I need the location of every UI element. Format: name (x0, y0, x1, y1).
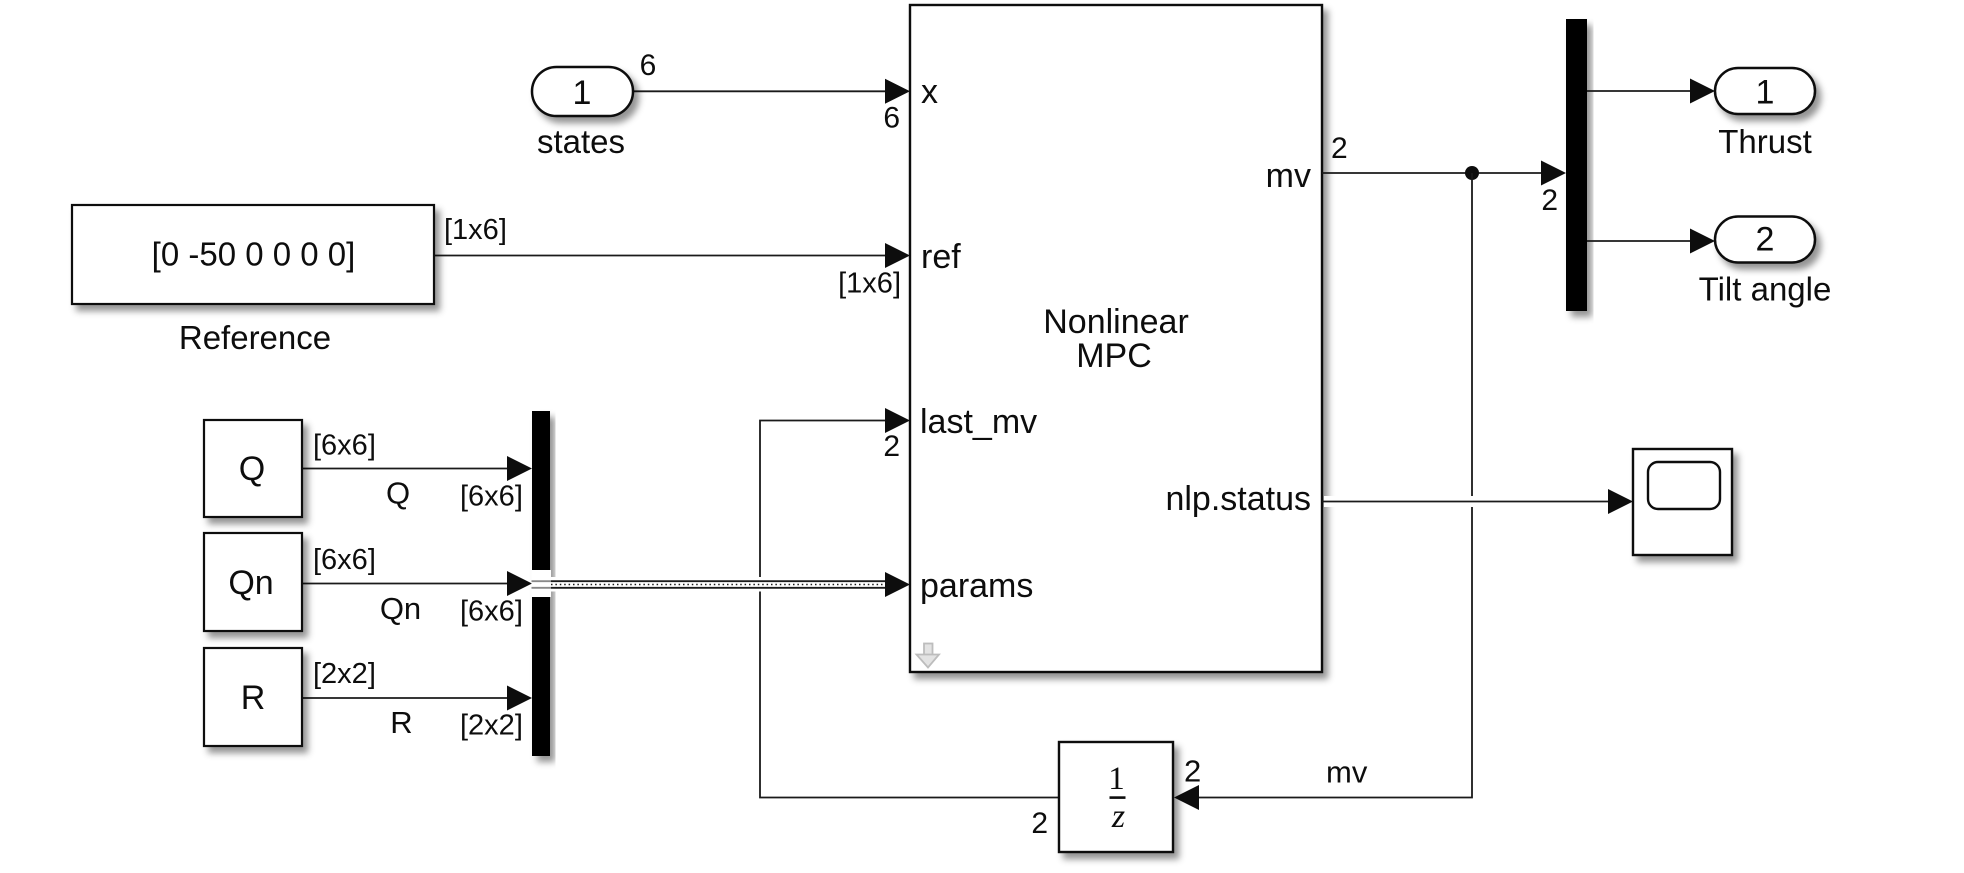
arrowhead into Tilt angle (1690, 229, 1715, 254)
svg-text:2: 2 (1756, 221, 1775, 259)
wire states to x (633, 90, 890, 92)
svg-text:mv: mv (1326, 755, 1368, 790)
svg-text:[6x6]: [6x6] (313, 430, 376, 462)
arrowhead into ref port (885, 243, 910, 268)
svg-text:Reference: Reference (179, 319, 331, 356)
svg-text:[1x6]: [1x6] (838, 268, 901, 300)
arrowhead into params port (885, 572, 910, 597)
svg-text:2: 2 (1541, 184, 1558, 217)
svg-text:6: 6 (640, 49, 657, 82)
arrowhead into Thrust (1690, 79, 1715, 104)
svg-text:[1x6]: [1x6] (444, 214, 507, 246)
wire nlp.status to scope (1324, 496, 1613, 507)
bus segment through notch (532, 581, 552, 588)
outport block Tilt angle (1715, 217, 1815, 263)
svg-text:Q: Q (239, 450, 265, 488)
svg-text:R: R (390, 705, 412, 740)
demux block (1566, 19, 1587, 311)
svg-text:states: states (537, 123, 625, 160)
wire mv to demux (1322, 172, 1546, 174)
svg-text:[6x6]: [6x6] (460, 481, 523, 513)
wire demux to Tilt angle (1587, 240, 1695, 242)
nonlinear mpc block (910, 5, 1322, 672)
scope block (1633, 449, 1732, 555)
arrowhead into x port (885, 79, 910, 104)
arrowhead into unit delay (1174, 785, 1199, 810)
outport block Thrust (1715, 68, 1815, 114)
svg-text:z: z (1111, 798, 1125, 835)
block Q (204, 420, 302, 517)
scope screen (1648, 462, 1720, 509)
constant block Reference (72, 205, 434, 304)
svg-text:MPC: MPC (1076, 337, 1152, 375)
arrowhead Qn into mux (507, 571, 532, 596)
svg-text:[2x2]: [2x2] (313, 658, 376, 690)
arrowhead into last_mv port (885, 408, 910, 433)
svg-text:2: 2 (1184, 754, 1201, 789)
subsystem drill-down arrow icon (917, 644, 940, 668)
svg-text:2: 2 (1331, 132, 1348, 165)
wire Qn to mux (302, 583, 512, 585)
svg-text:Q: Q (386, 476, 410, 511)
unit delay block (1059, 742, 1173, 852)
svg-text:[0 -50 0 0 0 0]: [0 -50 0 0 0 0] (152, 236, 356, 273)
svg-text:x: x (921, 73, 938, 111)
svg-text:1: 1 (573, 74, 592, 112)
arrowhead into scope (1608, 489, 1633, 514)
arrowhead R into mux (507, 686, 532, 711)
wire Reference to ref (434, 255, 890, 257)
inport block states (532, 67, 633, 116)
arrowhead Q into mux (507, 456, 532, 481)
svg-text:Tilt angle: Tilt angle (1699, 271, 1832, 308)
block R (204, 648, 302, 746)
svg-text:2: 2 (883, 430, 900, 463)
junction dot on mv wire (1465, 166, 1479, 180)
svg-text:Qn: Qn (228, 564, 273, 602)
svg-text:Nonlinear: Nonlinear (1043, 303, 1189, 341)
wire demux to Thrust (1587, 90, 1695, 92)
mux bus notch (532, 570, 552, 597)
svg-text:Qn: Qn (380, 591, 421, 626)
wire Q to mux (302, 468, 512, 470)
svg-text:6: 6 (883, 102, 900, 135)
svg-text:ref: ref (921, 238, 961, 276)
svg-text:2: 2 (1031, 807, 1048, 840)
svg-text:1: 1 (1108, 761, 1125, 797)
svg-text:[6x6]: [6x6] (313, 544, 376, 576)
mux block (532, 411, 550, 756)
svg-text:params: params (920, 567, 1033, 605)
svg-text:R: R (241, 679, 266, 717)
arrowhead into demux (1541, 161, 1566, 186)
svg-text:[6x6]: [6x6] (460, 596, 523, 628)
svg-text:mv: mv (1266, 157, 1311, 195)
bus wire mux to params (551, 577, 888, 592)
block Qn (204, 533, 302, 631)
unit delay 1/z fraction (1108, 761, 1125, 835)
svg-text:[2x2]: [2x2] (460, 710, 523, 742)
svg-text:Thrust: Thrust (1718, 123, 1812, 160)
wire unit delay output up to last_mv (760, 421, 1059, 798)
feedback wire mv down to unit delay (1198, 173, 1472, 798)
svg-text:1: 1 (1756, 74, 1775, 112)
wire R to mux (302, 697, 512, 699)
svg-text:last_mv: last_mv (920, 403, 1037, 441)
svg-text:nlp.status: nlp.status (1165, 480, 1311, 518)
